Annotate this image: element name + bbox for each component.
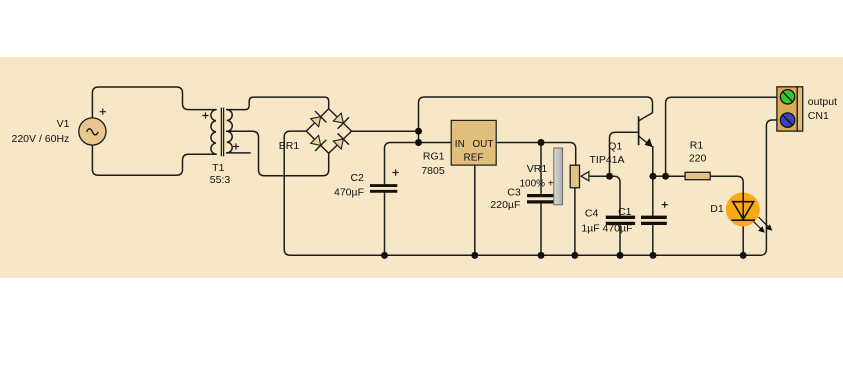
svg-text:220V / 60Hz: 220V / 60Hz [12, 133, 70, 145]
D1 emission arrows [754, 217, 772, 232]
CN1 green terminal [780, 90, 794, 104]
wire V1 top loop to T1 primary top [92, 87, 216, 118]
connector CN1 [777, 87, 803, 131]
LED D1 [726, 192, 772, 231]
wire T1 secondary tap to bridge AC2 [227, 131, 329, 176]
svg-text:7805: 7805 [421, 165, 445, 177]
junction bus C3 [537, 252, 544, 259]
svg-text:C4: C4 [585, 207, 599, 219]
svg-text:C1: C1 [618, 206, 632, 218]
svg-text:220µF: 220µF [490, 199, 520, 211]
svg-text:C2: C2 [350, 172, 364, 184]
diode BR1 top-left [309, 111, 326, 128]
svg-text:1µF: 1µF [581, 223, 599, 235]
junction bus C2 [381, 252, 388, 259]
wire RG1 REF pin to bus [474, 165, 476, 255]
wire output node up to right top rail [666, 97, 777, 176]
C2 plus mark [393, 169, 399, 175]
ground bus [290, 254, 760, 256]
junction bridge plus / rail [415, 128, 422, 135]
schematic beige panel [0, 57, 843, 278]
wire output node to R1 [666, 175, 686, 177]
capacitor C4 [606, 217, 635, 223]
resistor R1 [685, 172, 710, 179]
diode BR1 bottom-left [309, 134, 326, 151]
wire LED D1 to bus [742, 219, 744, 255]
wire R1 right to LED D1 [710, 176, 743, 201]
svg-text:output: output [808, 96, 837, 108]
diode BR1 top-right [332, 111, 349, 128]
wire node to RG1 IN pin [419, 142, 452, 144]
wire VR1 bottom to bus [574, 188, 576, 256]
svg-text:D1: D1 [710, 203, 724, 215]
junction OUT node [537, 139, 544, 146]
wire C3 bottom to bus [540, 204, 542, 255]
svg-text:VR1: VR1 [527, 163, 548, 175]
capacitor C2 [370, 186, 397, 192]
VR1 wiper arrow [581, 172, 589, 181]
svg-text:IN: IN [455, 139, 465, 150]
junction bus C1 [649, 252, 656, 259]
wire bridge minus to ground bus [284, 131, 306, 255]
capacitor C1 [641, 217, 667, 223]
svg-text:OUT: OUT [472, 139, 493, 150]
junction bus REF [471, 252, 478, 259]
transformer T1 [211, 108, 232, 157]
wire Q1 emitter node down to C1 [652, 147, 654, 216]
bridge rectifier BR1 [306, 109, 351, 154]
transistor Q1 [639, 113, 653, 148]
regulator RG1 box [451, 120, 496, 165]
svg-text:REF: REF [464, 153, 484, 164]
wire C2 bottom to bus [384, 193, 386, 255]
wire VR1 wiper to base node [589, 175, 610, 177]
top rail from plus node to Q1 collector [419, 97, 653, 131]
AC source V1 [79, 118, 106, 145]
junction bus C4 [616, 252, 623, 259]
svg-text:Q1: Q1 [608, 141, 622, 153]
potentiometer VR1 body [570, 165, 579, 188]
V1 plus mark [100, 109, 106, 115]
T1 secondary plus mark [233, 143, 239, 149]
svg-text:BR1: BR1 [279, 140, 300, 152]
junction bus D1 [740, 252, 747, 259]
junction IN node [415, 139, 422, 146]
svg-text:TIP41A: TIP41A [589, 154, 624, 166]
capacitor C3 [527, 196, 554, 202]
svg-text:T1: T1 [212, 162, 224, 174]
wire V1 bottom loop to T1 primary bottom [92, 145, 216, 176]
svg-text:55:3: 55:3 [210, 174, 231, 186]
junction output node [662, 173, 669, 180]
svg-text:470µF: 470µF [603, 223, 633, 235]
svg-text:470µF: 470µF [334, 187, 364, 199]
wire base node to C4 branch [610, 176, 621, 216]
junction wiper-base node [606, 173, 613, 180]
wire T1 secondary top to bridge AC1 [227, 97, 329, 110]
junction bus VR1 [571, 252, 578, 259]
wire RG1 OUT pin to VR1 top [497, 143, 576, 166]
wire node to C2 branch [385, 143, 419, 185]
wire base node up to Q1 base [610, 132, 639, 176]
svg-text:220: 220 [689, 153, 707, 165]
wire emitter node to output node [653, 175, 666, 177]
wire plus node down-link [418, 131, 420, 142]
svg-text:V1: V1 [57, 118, 70, 130]
wire bus right end up to CN1 blue terminal [760, 120, 777, 255]
C1 plus mark [662, 202, 668, 208]
svg-text:RG1: RG1 [423, 151, 445, 163]
svg-text:100% +: 100% + [519, 178, 553, 189]
wire bridge plus to node [352, 130, 419, 132]
svg-text:CN1: CN1 [808, 110, 829, 122]
wire C1 bottom to bus [652, 226, 654, 256]
diode BR1 bottom-right [332, 133, 349, 150]
svg-text:R1: R1 [690, 140, 704, 152]
wire OUT node down to C3 [540, 143, 542, 194]
junction emitter node [649, 173, 656, 180]
stub T1 secondary bottom [227, 152, 250, 154]
CN1 blue terminal [780, 113, 794, 127]
wire C4 bottom to bus [619, 226, 621, 256]
T1 primary plus mark [202, 112, 208, 118]
